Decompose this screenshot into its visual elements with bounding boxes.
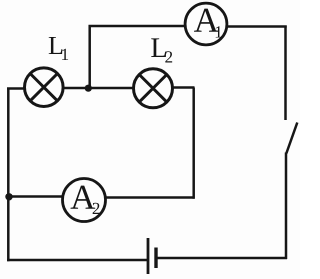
battery cell: long positive plate bbox=[147, 238, 150, 274]
wire L1 to junction bbox=[63, 87, 89, 90]
wire junction to L2 bbox=[88, 87, 134, 90]
wire A2 to left node bbox=[8, 195, 63, 198]
wire right rail upper bbox=[284, 26, 287, 121]
node junction of L1/L2/A1 branch bbox=[85, 85, 92, 92]
wire L2 right lead bbox=[173, 86, 195, 89]
label L2 subscript 2 bbox=[165, 51, 172, 62]
wire left rail bbox=[7, 88, 10, 261]
ammeter A1 bbox=[185, 3, 227, 45]
node left rail / A2 branch bbox=[5, 193, 12, 200]
battery cell: short negative plate bbox=[154, 248, 157, 269]
label L1 letter L bbox=[49, 37, 63, 54]
ammeter A2 bbox=[63, 179, 106, 222]
wire branch bottom to A2 bbox=[106, 196, 195, 199]
wire battery to bottom left bbox=[7, 259, 148, 262]
wire L2 branch drop bbox=[192, 88, 195, 199]
wire junction riser bbox=[88, 25, 91, 89]
wire bottom right to battery bbox=[157, 257, 288, 260]
lamp L1 bbox=[25, 68, 64, 107]
label L1 subscript 1 bbox=[62, 49, 68, 60]
wire L1 left lead bbox=[7, 87, 24, 90]
wire A1 to top right corner bbox=[227, 25, 286, 28]
lamp L2 bbox=[134, 69, 173, 108]
label L2 letter L bbox=[151, 38, 166, 57]
switch S (open) bbox=[286, 123, 297, 154]
wire top to A1 bbox=[89, 25, 186, 28]
wire right rail lower bbox=[285, 153, 288, 260]
